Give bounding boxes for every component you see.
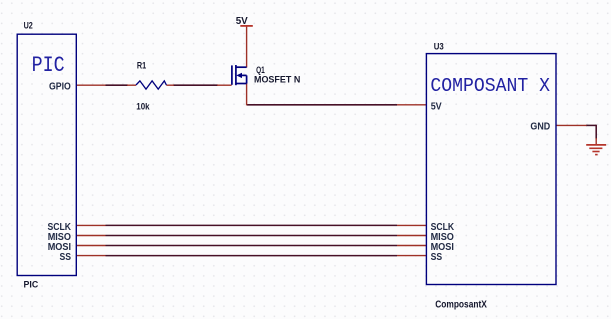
svg-text:5V: 5V: [236, 16, 248, 27]
svg-text:PIC: PIC: [24, 279, 39, 290]
svg-text:COMPOSANT X: COMPOSANT X: [430, 75, 550, 97]
svg-text:GPIO: GPIO: [49, 82, 71, 93]
svg-text:5V: 5V: [431, 101, 442, 112]
svg-text:10k: 10k: [136, 102, 150, 113]
svg-text:PIC: PIC: [32, 52, 65, 78]
svg-text:SS: SS: [60, 252, 72, 263]
svg-text:U3: U3: [434, 42, 444, 53]
svg-text:U2: U2: [24, 21, 33, 32]
svg-text:R1: R1: [137, 61, 147, 72]
svg-text:MOSFET N: MOSFET N: [254, 75, 300, 86]
svg-text:SS: SS: [431, 252, 443, 263]
svg-text:ComposantX: ComposantX: [435, 299, 487, 310]
svg-text:GND: GND: [530, 122, 550, 133]
